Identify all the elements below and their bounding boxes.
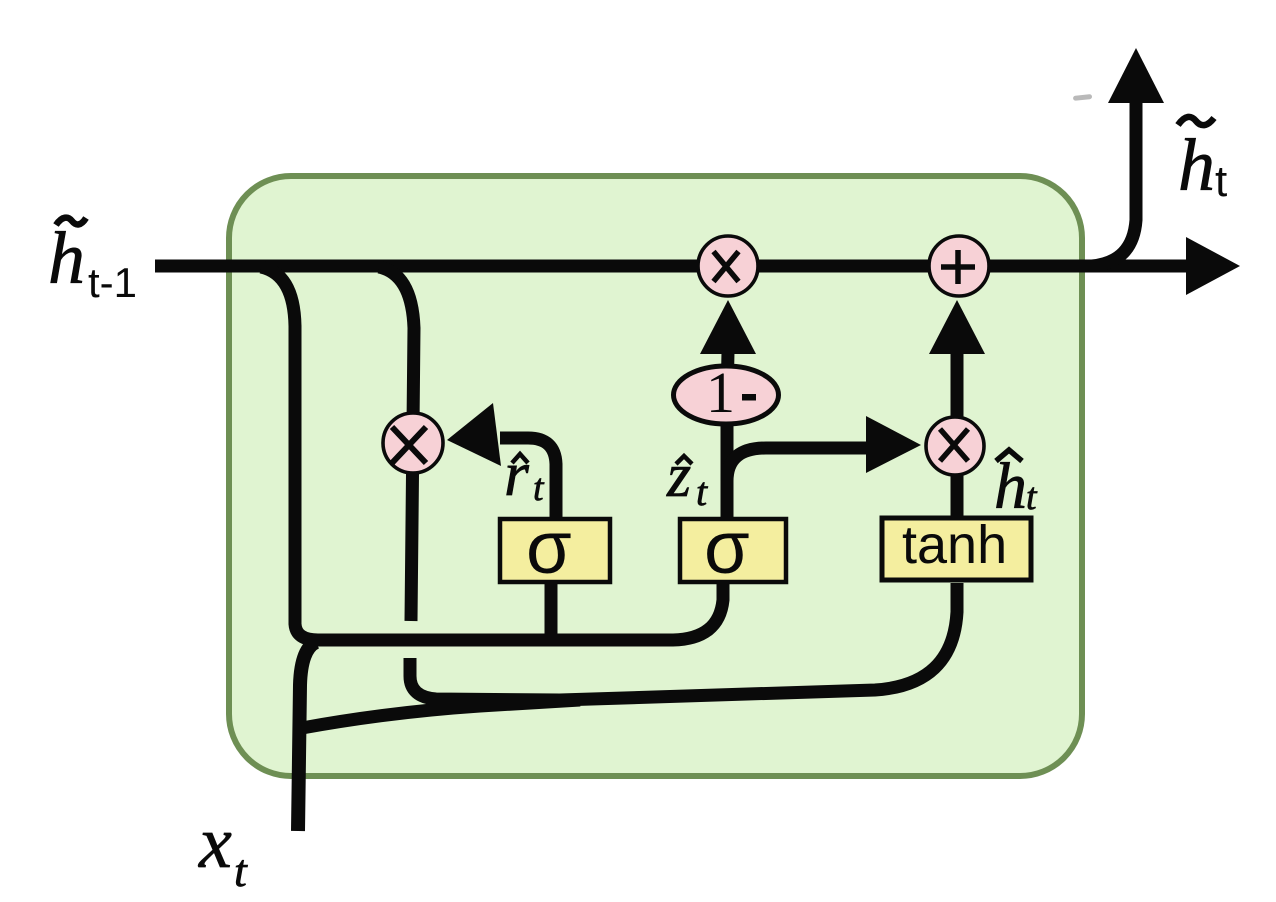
arrowhead: h_t up output <box>1108 48 1164 103</box>
gate: tanh box <box>882 518 1031 580</box>
wire: main h(t-1) horizontal line <box>155 260 1188 273</box>
svg-text:t-1: t-1 <box>88 259 137 306</box>
gate: sigma box (reset) <box>500 519 610 582</box>
svg-text:σ: σ <box>704 506 750 589</box>
wire: tanh output up through right multiply to plus <box>951 352 964 517</box>
svg-text:t: t <box>533 467 545 509</box>
arrowhead: 1- into top multiply <box>700 300 756 354</box>
arrowhead: into plus circle <box>929 300 985 354</box>
wire: branch 2 of h(t-1) down through reset multiply <box>379 267 414 621</box>
svg-text:t: t <box>696 469 708 514</box>
wire: h_t output branch curving up <box>1092 102 1136 266</box>
arrowhead: into reset multiply <box>447 403 501 466</box>
operator: right multiply circle <box>926 417 984 475</box>
operator: reset multiply circle <box>383 413 443 473</box>
arrowhead: h_t right output <box>1186 237 1240 295</box>
arrowhead: z into right multiply <box>866 416 921 473</box>
svg-text:t: t <box>1026 476 1038 518</box>
svg-text:t: t <box>1215 157 1227 206</box>
wire: branch 1 of h(t-1) down to gate bus <box>261 267 723 640</box>
operator: top multiply circle <box>698 236 758 296</box>
wire: sigma1 bottom connection to gate bus <box>545 583 558 634</box>
wire: x_t input rising into gate bus <box>298 642 316 831</box>
svg-text:x: x <box>198 802 232 884</box>
wire: x_t branch to tanh (bottom diagonal) <box>302 700 580 728</box>
svg-text:t: t <box>234 845 248 896</box>
operator: 1- ellipse <box>674 366 779 424</box>
svg-text:1: 1 <box>706 360 735 425</box>
wire: r*h bus to tanh <box>410 583 957 700</box>
GRU cell body (green rounded rectangle) <box>229 176 1082 776</box>
gate: sigma box (update) <box>680 519 786 582</box>
wire: sigma2 (z gate) top vertical to 1- ellipse <box>727 352 728 517</box>
wire: sigma1 top to reset multiply arrow <box>500 438 556 518</box>
svg-text:h: h <box>48 218 85 300</box>
wire: z branch to right multiply <box>727 448 868 481</box>
svg-text:tanh: tanh <box>902 515 1007 575</box>
svg-text:σ: σ <box>526 506 572 589</box>
svg-text:h: h <box>1178 125 1215 207</box>
svg-text:z: z <box>666 442 691 510</box>
operator: plus circle <box>929 236 989 296</box>
svg-text:r: r <box>504 438 530 509</box>
decorative gray smudge near top-right <box>1073 94 1092 101</box>
